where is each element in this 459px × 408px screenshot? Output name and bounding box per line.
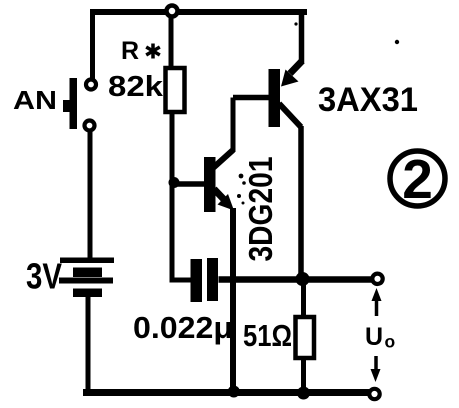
svg-text:o: o <box>385 332 396 352</box>
wire rail terminal to resistor R <box>169 16 174 69</box>
wire Q2 collector down to node B <box>298 126 304 277</box>
svg-text:82k: 82k <box>108 71 164 103</box>
junction dot resistor-bottom rail <box>297 387 310 400</box>
wire Q1 emitter down <box>230 208 236 392</box>
wire left drop from rail to button <box>90 10 95 79</box>
svg-text:0.022μ: 0.022μ <box>133 310 233 345</box>
wire node B to resistor 51 <box>301 279 306 318</box>
wire node A to Q1 base <box>174 181 205 187</box>
svg-text:U: U <box>365 323 383 351</box>
svg-text:2: 2 <box>402 148 433 210</box>
pushbutton AN <box>63 78 96 131</box>
node terminal on top rail <box>167 6 178 17</box>
wire resistor to node A and to capacitor <box>172 112 192 280</box>
wire battery to bottom rail <box>86 297 91 392</box>
svg-text:51Ω: 51Ω <box>243 318 292 353</box>
figure number 2 <box>390 148 445 210</box>
output terminal bottom <box>369 389 379 399</box>
wire capacitor to output terminal <box>219 276 373 283</box>
svg-text:3DG201: 3DG201 <box>242 157 279 262</box>
wire resistor 51 to bottom rail <box>301 358 306 392</box>
svg-text:AN: AN <box>13 85 57 115</box>
svg-text:3AX31: 3AX31 <box>318 81 418 119</box>
label Uo <box>365 323 395 352</box>
battery B1 <box>59 258 114 298</box>
output arrow down <box>371 356 381 382</box>
wire bottom rail <box>83 389 371 396</box>
capacitor C1 <box>191 258 219 302</box>
transistor Q2 3AX31 <box>269 61 303 127</box>
transistor Q1 3DG201 <box>204 150 234 212</box>
svg-text:R: R <box>121 37 139 65</box>
ink smudge specks <box>237 22 298 204</box>
node B junction dot <box>296 272 310 286</box>
wire Q1 collector to Q2 base <box>233 95 270 101</box>
junction dot emitter-bottom rail <box>228 386 240 398</box>
output terminal top <box>372 274 382 284</box>
label R* <box>121 37 160 65</box>
resistor R2 51ohm <box>296 317 315 358</box>
ink speck <box>395 40 399 44</box>
wire top rail <box>90 9 307 15</box>
wire Q2 emitter to top rail <box>299 11 305 64</box>
wire button to battery <box>88 131 93 258</box>
svg-text:3V: 3V <box>26 256 62 297</box>
output arrow up <box>372 288 382 316</box>
wire Q1 collector up <box>231 98 236 153</box>
node A junction dot <box>169 177 180 188</box>
resistor R1 R* 82k <box>166 68 185 112</box>
